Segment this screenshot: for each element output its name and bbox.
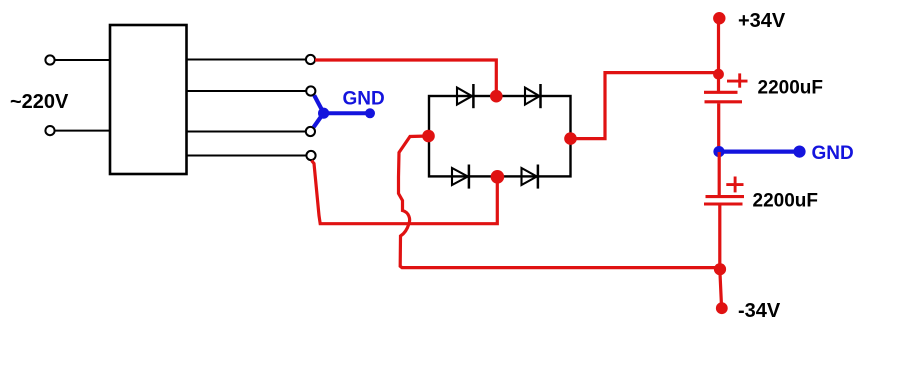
terminal S4 (306, 151, 315, 160)
node GND terminal (365, 108, 375, 118)
diode D4 (522, 165, 538, 189)
capacitor C2 top plate (706, 195, 745, 198)
capacitor C1 top plate (704, 91, 738, 94)
wire secondary 1 (187, 59, 306, 61)
wire GND node to C2 (718, 152, 721, 196)
wire S4 to bridge AC bottom (312, 161, 498, 224)
wire C1 to GND node (717, 103, 720, 152)
svg-text:2200uF: 2200uF (758, 78, 823, 99)
wire center-tap upper (blue) (314, 95, 323, 113)
capacitor C1 plus sign (727, 73, 748, 87)
wire GND lead right (blue) (719, 150, 799, 154)
wire secondary 2 (187, 90, 306, 92)
node -34V (716, 302, 728, 314)
node bridge AC top (490, 90, 503, 103)
diode D1 (457, 84, 473, 108)
svg-text:GND: GND (343, 89, 385, 110)
terminal S3 (306, 127, 315, 136)
junction -34V rail (714, 263, 726, 275)
node GND rail (blue) (713, 146, 724, 157)
transformer T1 (110, 25, 187, 174)
svg-text:GND: GND (812, 143, 854, 164)
wire C2 to -34V (720, 206, 722, 309)
bridge rectifier outline (429, 96, 571, 176)
primary terminal P1 (45, 55, 54, 64)
capacitor C2 bottom plate (704, 202, 743, 205)
junction center-tap (318, 108, 329, 119)
wire +34V rail top (717, 18, 720, 92)
svg-text:~220V: ~220V (10, 91, 69, 113)
terminal S1 (306, 55, 315, 64)
svg-text:-34V: -34V (738, 300, 781, 322)
wire secondary 4 (187, 155, 307, 157)
diode D3 (452, 165, 469, 189)
wire S1 to bridge AC top (315, 60, 496, 96)
terminal S2 (306, 86, 315, 95)
node +34V (713, 12, 725, 24)
wire primary top (55, 59, 109, 61)
svg-text:2200uF: 2200uF (753, 191, 818, 212)
diode D2 (525, 84, 541, 108)
wire bridge minus to -34V rail (with hop) (399, 136, 720, 268)
node bridge AC bottom (491, 170, 505, 184)
capacitor C1 bottom plate (705, 100, 743, 103)
primary terminal P2 (45, 126, 54, 135)
node bridge minus (left) (422, 130, 435, 143)
wire primary bottom (55, 130, 109, 132)
wire GND lead (blue) (324, 111, 370, 115)
junction rail/bridge (713, 69, 724, 80)
wire secondary 3 (187, 131, 306, 133)
wire bridge plus to +34V rail (571, 73, 719, 139)
capacitor C2 plus sign (726, 177, 743, 193)
svg-text:+34V: +34V (738, 10, 786, 32)
node bridge plus (right) (564, 132, 577, 145)
wire center-tap lower (blue) (314, 113, 324, 127)
node GND terminal right (793, 146, 805, 158)
